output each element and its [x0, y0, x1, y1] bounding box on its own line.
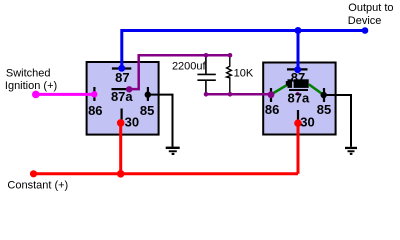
svg-text:2200uf: 2200uf: [172, 60, 207, 72]
svg-text:Ignition (+): Ignition (+): [5, 80, 57, 92]
svg-text:85: 85: [317, 102, 331, 117]
svg-text:Constant (+): Constant (+): [7, 180, 68, 192]
svg-text:30: 30: [125, 115, 139, 130]
svg-text:87a: 87a: [111, 89, 133, 104]
svg-text:87: 87: [115, 70, 129, 85]
svg-text:86: 86: [88, 103, 102, 118]
svg-text:86: 86: [265, 102, 279, 117]
svg-text:85: 85: [140, 103, 154, 118]
svg-text:Switched: Switched: [6, 67, 51, 79]
svg-text:10K: 10K: [234, 67, 254, 79]
svg-text:Device: Device: [348, 15, 382, 27]
svg-text:30: 30: [300, 115, 314, 130]
svg-text:87a: 87a: [288, 91, 310, 106]
svg-text:Output to: Output to: [348, 2, 393, 14]
